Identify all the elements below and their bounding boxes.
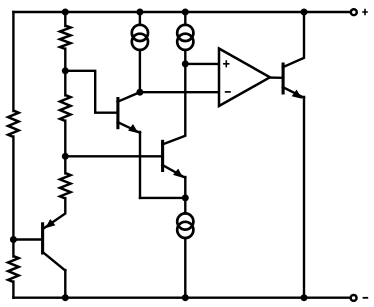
transistor Q2 emitter [162,165,185,178]
transistor Q2 emitter arrow [173,169,183,178]
wire Q3 emitter down [303,97,305,298]
node B junction dot [62,153,69,160]
wire op-amp inverting input [140,91,219,93]
junction dot top rail / I1 [136,9,143,16]
wire I1 bottom lead [139,50,141,92]
op-amp U1 minus label [225,91,231,93]
junction dot bottom rail / Q4 collector [62,294,69,301]
wire I2 top lead [184,12,186,25]
transistor Q1 emitter arrow [128,124,138,133]
terminal V- minus label [363,297,369,299]
wire chain node A to R4 [64,71,66,96]
wire Q2 emitter down [184,177,186,198]
op-amp U1 plus label [223,60,229,67]
terminal V+ ring [351,9,357,15]
transistor Q3 emitter arrow [292,90,302,99]
junction dot top rail / Q3 collector [301,9,308,16]
node E junction dot [182,60,189,67]
wire top rail [13,11,349,13]
wire left branch lower [12,282,14,298]
wire Q4 collector to bottom rail [64,270,66,298]
resistor R5 [60,173,71,199]
wire chain R3 to node A [64,49,66,71]
wire I3 bottom lead [184,238,186,298]
terminal V- ring [351,295,357,301]
current source I2 [177,25,193,41]
transistor Q1 base bar [116,97,119,129]
wire chain node B to R5 [64,156,66,173]
junction dot top rail / I2 [182,9,189,16]
wire Q2 base [65,155,161,157]
wire chain top lead [64,12,66,26]
wire Q1 base [65,71,116,113]
wire bottom rail [13,297,349,299]
wire I2 bottom lead [184,50,186,64]
junction dot bottom rail / I3 [182,294,189,301]
wire I3 top lead [184,198,186,214]
current source I1 [132,25,148,41]
node D junction dot [136,89,143,96]
current source I3 [177,213,193,229]
wire Q4 base [13,238,41,240]
transistor Q3 emitter [283,87,304,98]
transistor Q1 emitter [118,122,140,133]
op-amp U1 [219,49,270,107]
terminal V+ plus label [362,9,368,15]
resistor R1 [8,111,19,138]
junction dot bottom rail / Q3 emitter [301,294,308,301]
wire tail horizontal [140,197,185,199]
transistor Q2 collector [162,64,185,145]
transistor Q4 emitter arrow (PNP) [45,219,55,228]
transistor Q2 base bar [161,140,164,172]
wire Q1 emitter down [139,132,141,198]
wire left branch middle [12,137,14,257]
wire I1 top lead [139,12,141,25]
wire R5 to Q4 emitter [44,198,65,228]
wire op-amp output [270,76,282,79]
resistor R3 [60,26,71,49]
node C junction dot [10,236,17,243]
wire left branch upper [12,12,14,111]
node A junction dot [62,67,69,74]
transistor Q3 collector [283,12,304,67]
wire chain R4 to node B [64,121,66,157]
junction dot top rail / resistor chain [62,9,69,16]
transistor Q1 collector [118,92,140,102]
transistor Q4 collector [43,252,66,271]
resistor R2 [8,256,19,282]
wire op-amp noninverting input [185,63,219,65]
node F junction dot [182,194,189,201]
transistor Q3 base bar [282,63,285,95]
transistor Q4 base bar [41,222,44,254]
resistor R4 [60,95,71,121]
